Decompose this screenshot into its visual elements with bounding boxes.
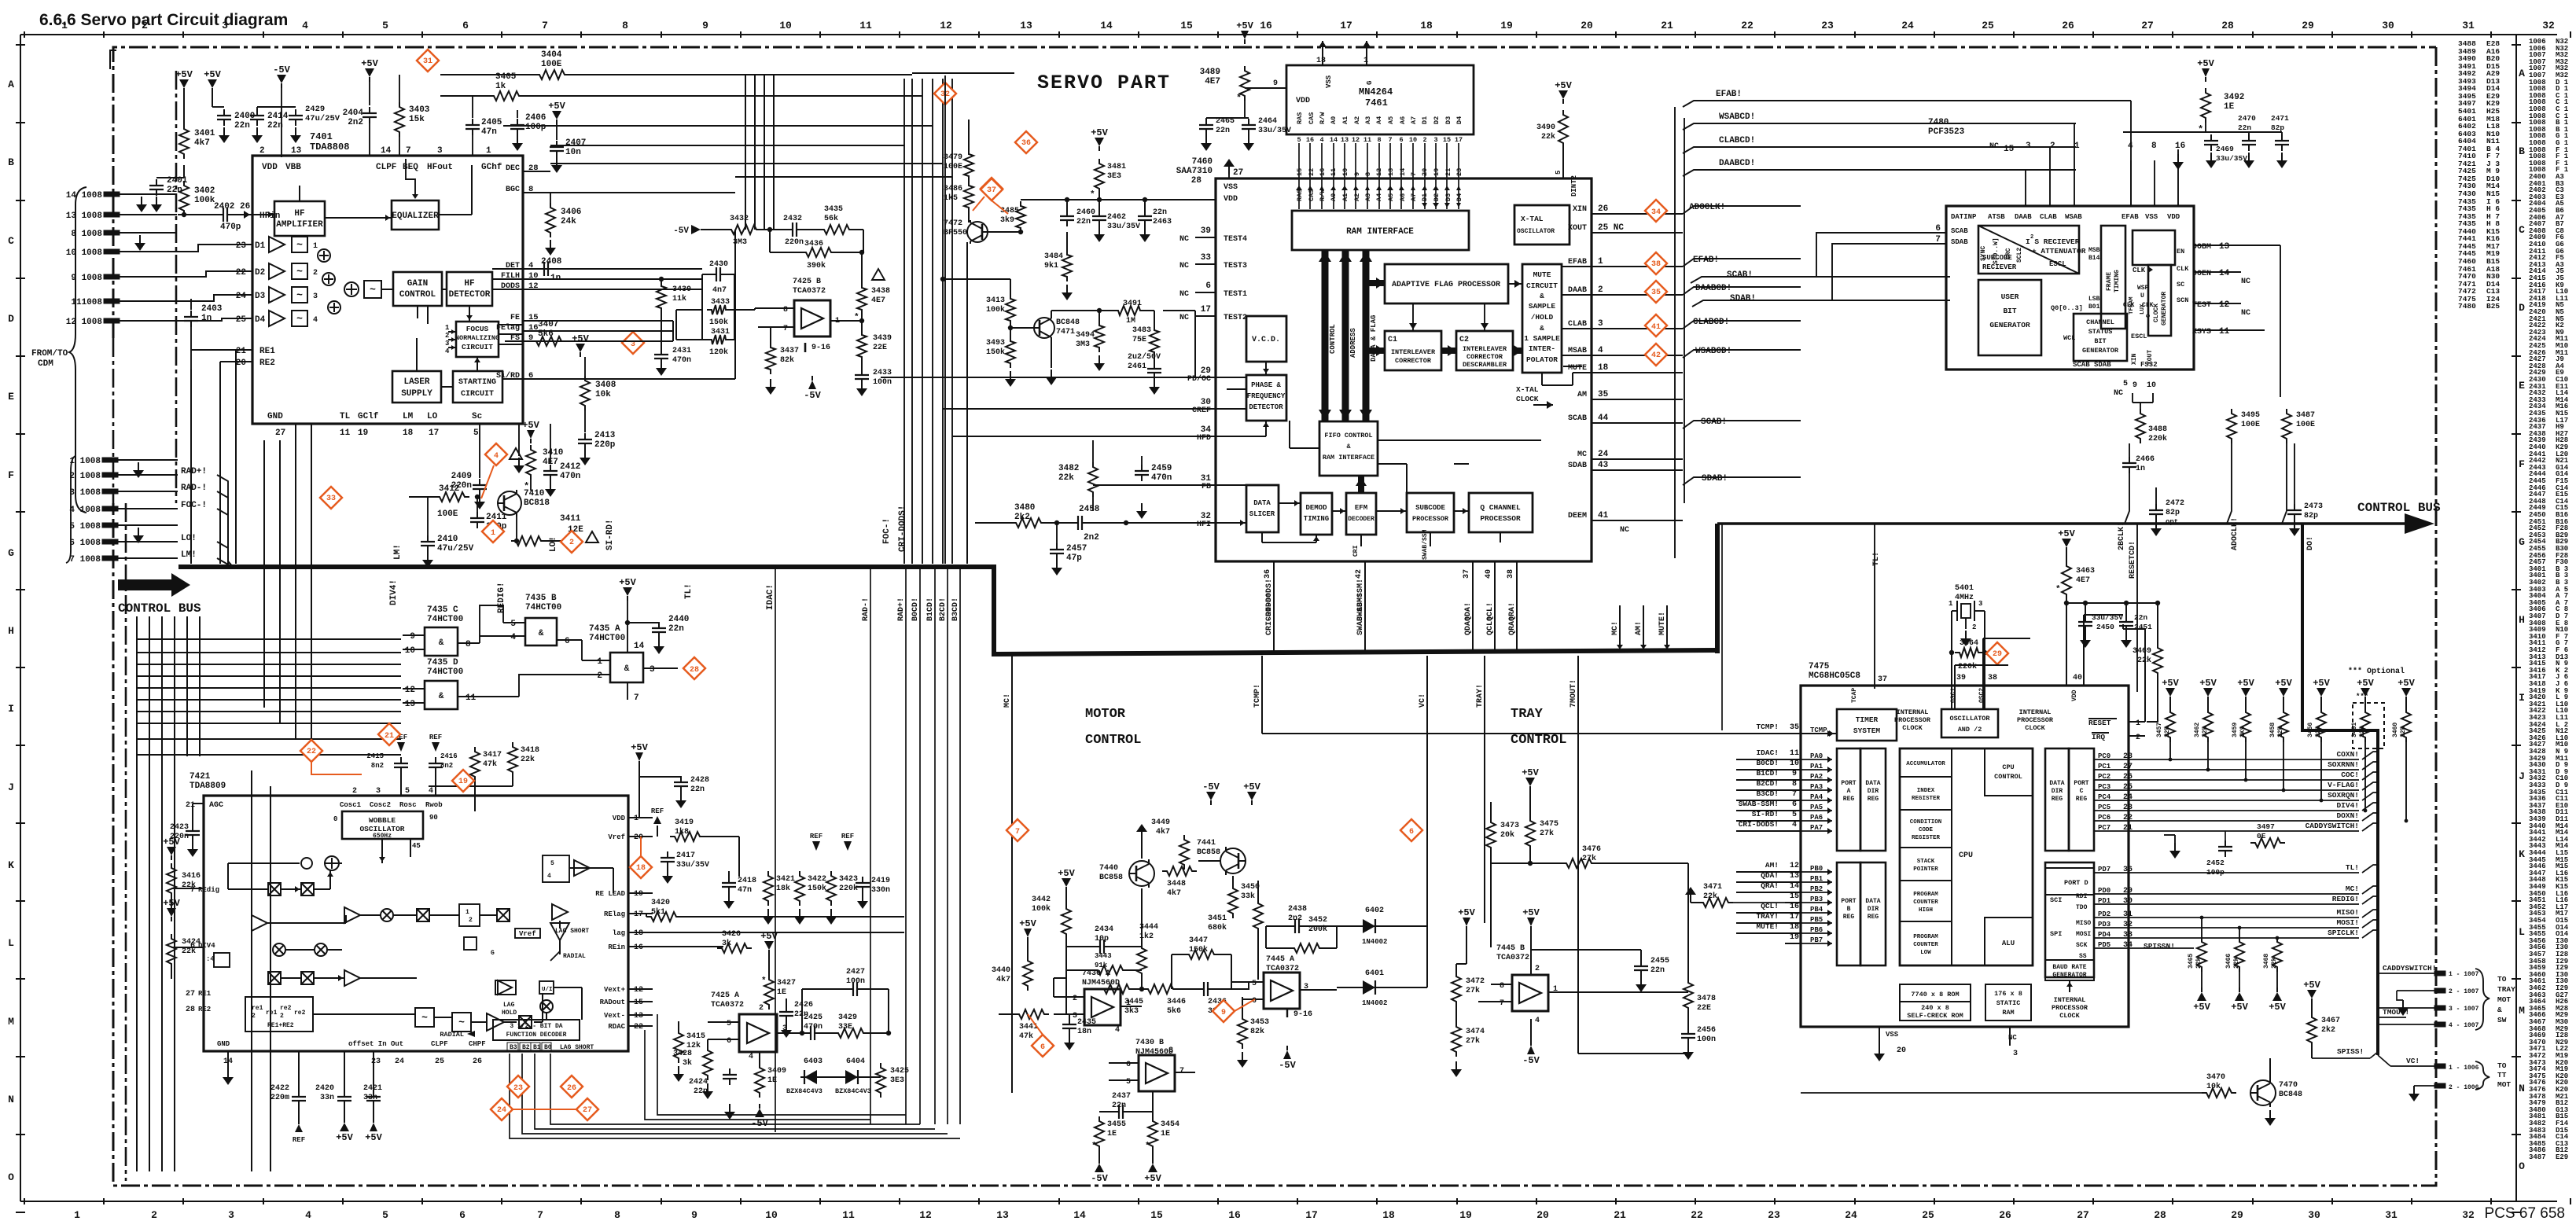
svg-text:CPU: CPU	[2002, 763, 2014, 771]
svg-text:B1CD!: B1CD!	[1756, 769, 1779, 778]
svg-text:B2CD!: B2CD!	[1756, 779, 1779, 788]
svg-text:D1: D1	[255, 241, 266, 251]
svg-text:AM!: AM!	[1765, 861, 1779, 870]
svg-text:7471: 7471	[1056, 328, 1075, 337]
svg-text:3421: 3421	[776, 875, 795, 884]
svg-text:+5V: +5V	[1458, 907, 1475, 918]
diamond 6 motor	[1032, 1035, 1054, 1057]
resistor group 3465 3466 3468 22k	[2197, 937, 2206, 972]
long verticals from SAA bottom to CPU left	[1274, 651, 1722, 831]
svg-text:RAD-!: RAD-!	[181, 484, 207, 493]
svg-text:5k6: 5k6	[1167, 1006, 1181, 1016]
svg-text:SS: SS	[2079, 953, 2087, 960]
svg-text:CADDYSWITCH!: CADDYSWITCH!	[2306, 822, 2359, 830]
svg-text:SLICER: SLICER	[1249, 510, 1275, 518]
collector rail to SAA VDD pin	[1021, 199, 1216, 200]
TDA8809 internal symbols	[325, 856, 339, 870]
svg-text:MUTE!: MUTE!	[1756, 922, 1779, 931]
svg-text:A4: A4	[1375, 193, 1383, 201]
svg-text:3M3: 3M3	[1076, 340, 1090, 349]
svg-text:3 - 1007: 3 - 1007	[2449, 1006, 2479, 1013]
svg-text:22: 22	[307, 748, 316, 756]
svg-text:M: M	[2519, 1005, 2525, 1017]
resistor 3444 1k2	[1137, 943, 1146, 978]
svg-text:2: 2	[597, 671, 602, 681]
svg-text:4: 4	[749, 1053, 753, 1061]
svg-text:C: C	[8, 235, 14, 247]
svg-text:100n: 100n	[873, 378, 892, 387]
svg-text:6402: 6402	[1365, 907, 1384, 915]
svg-text:Sc: Sc	[472, 412, 482, 421]
svg-text:22k: 22k	[1541, 132, 1555, 142]
svg-text:BF550: BF550	[944, 229, 967, 237]
svg-text:+5V: +5V	[2275, 678, 2292, 689]
svg-text:2417: 2417	[676, 851, 695, 860]
svg-text:REDIG!: REDIG!	[497, 582, 506, 613]
capacitor 2466 1n	[2129, 457, 2130, 463]
svg-text:3487: 3487	[2296, 411, 2315, 420]
svg-text:MOT: MOT	[2497, 1080, 2511, 1089]
resistor 3406 24k	[546, 203, 555, 237]
svg-text:CLOCK: CLOCK	[2059, 1012, 2080, 1020]
svg-text:8: 8	[1792, 780, 1797, 789]
svg-text:DATA: DATA	[2049, 780, 2064, 787]
diode 6402 1N4002	[1360, 925, 1379, 927]
svg-text:24: 24	[395, 1057, 404, 1066]
TDA8808 sub-block LASER SUPPLY	[392, 371, 441, 403]
IC 7401 TDA8808 outline	[252, 156, 523, 424]
svg-text:1 1008: 1 1008	[69, 457, 101, 466]
svg-text:TEST: TEST	[2192, 301, 2211, 310]
svg-text:42: 42	[1651, 351, 1661, 360]
svg-text:10: 10	[1409, 136, 1417, 144]
svg-text:B2CD!: B2CD!	[939, 598, 948, 621]
ALU box	[1985, 918, 2033, 965]
svg-text:TO: TO	[2497, 1061, 2507, 1070]
svg-text:A7: A7	[1410, 193, 1418, 201]
svg-text:CHANNEL: CHANNEL	[2086, 318, 2114, 326]
svg-text:2470: 2470	[2238, 114, 2256, 123]
svg-text:3: 3	[1598, 319, 1603, 329]
svg-text:SUBCODE: SUBCODE	[1415, 504, 1445, 512]
capacitor 2457 47p	[1056, 543, 1058, 550]
svg-text:11: 11	[2219, 327, 2230, 337]
svg-text:41: 41	[1651, 323, 1661, 332]
svg-text:SPISSN!: SPISSN!	[2144, 942, 2175, 951]
svg-text:SCAB!: SCAB!	[1701, 417, 1727, 427]
TDA8808 summing and filter	[344, 282, 359, 296]
svg-text:+5V: +5V	[2197, 58, 2214, 69]
svg-text:21: 21	[186, 801, 195, 810]
svg-text:2464: 2464	[1258, 117, 1277, 126]
svg-text:3463: 3463	[2076, 567, 2095, 576]
svg-text:7472: 7472	[944, 219, 962, 228]
svg-text:TL!: TL!	[1872, 552, 1881, 566]
svg-text:31: 31	[2462, 20, 2475, 31]
svg-text:3E3: 3E3	[1107, 172, 1121, 181]
svg-text:3442: 3442	[1032, 895, 1051, 904]
svg-text:+5V: +5V	[1019, 918, 1036, 929]
svg-text:B0CD!: B0CD!	[1756, 759, 1779, 767]
CPU internal registers	[1900, 748, 1952, 777]
svg-text:&: &	[539, 629, 544, 638]
svg-text:2459: 2459	[1151, 464, 1172, 473]
bracket for 1008 lower pins	[66, 456, 75, 563]
svg-text:TEST2: TEST2	[1224, 314, 1247, 322]
svg-text:12: 12	[2219, 300, 2229, 310]
svg-text:3408: 3408	[595, 381, 616, 390]
resistor 3412 100E	[435, 492, 469, 502]
svg-text:1: 1	[466, 909, 469, 916]
svg-text:POINTER: POINTER	[1913, 866, 1938, 873]
svg-text:PROCESSOR: PROCESSOR	[2052, 1004, 2088, 1012]
svg-text:4: 4	[1319, 136, 1323, 144]
svg-text:Vref: Vref	[519, 930, 536, 938]
svg-text:3420: 3420	[651, 899, 670, 907]
svg-text:9: 9	[691, 1209, 697, 1221]
svg-text:-5V: -5V	[1091, 1173, 1108, 1184]
svg-text:150k: 150k	[986, 348, 1005, 357]
svg-text:3: 3	[650, 665, 655, 675]
svg-text:GND: GND	[217, 1040, 230, 1048]
svg-text:PCS 67 658: PCS 67 658	[2485, 1205, 2565, 1222]
svg-text:RADout: RADout	[600, 998, 625, 1006]
svg-text:RE LEAD: RE LEAD	[595, 890, 625, 898]
svg-text:3493: 3493	[986, 339, 1005, 348]
svg-text:240 x 8: 240 x 8	[1921, 1004, 1949, 1012]
svg-text:29: 29	[2231, 1209, 2243, 1221]
svg-text:1: 1	[445, 324, 450, 332]
capacitor 2400 22n	[212, 93, 213, 107]
svg-text:G: G	[491, 950, 495, 957]
orange diamonds bottom	[507, 1076, 529, 1098]
svg-text:14: 14	[1073, 1209, 1086, 1221]
svg-text:LAG SHORT: LAG SHORT	[555, 928, 589, 935]
svg-text:~: ~	[296, 239, 303, 251]
svg-text:7: 7	[542, 20, 548, 31]
svg-text:7MOUT!: 7MOUT!	[1570, 679, 1578, 708]
svg-text:WCL: WCL	[2063, 334, 2075, 342]
svg-text:REG: REG	[2052, 796, 2063, 803]
svg-text:12: 12	[634, 986, 643, 995]
TDA8809 internal wiring	[228, 862, 300, 864]
svg-text:3449: 3449	[1151, 818, 1170, 827]
svg-text:4E7: 4E7	[543, 458, 558, 467]
svg-text:C: C	[2519, 224, 2525, 236]
svg-text:37: 37	[1463, 569, 1471, 579]
svg-text:22E: 22E	[1697, 1004, 1711, 1013]
svg-text:2k2: 2k2	[2321, 1025, 2335, 1035]
resistor 3408 10k	[580, 376, 590, 410]
transistor 7441 BC858	[1220, 848, 1246, 873]
svg-text:TDA8808: TDA8808	[310, 142, 349, 153]
svg-text:27: 27	[186, 990, 195, 998]
svg-text:GENERATOR: GENERATOR	[2082, 347, 2119, 355]
svg-text:H: H	[2519, 614, 2525, 626]
svg-text:7461: 7461	[1365, 97, 1388, 108]
svg-text:28: 28	[2154, 1209, 2166, 1221]
svg-text:9: 9	[702, 20, 708, 31]
svg-text:MISO: MISO	[2076, 920, 2091, 927]
svg-text:NC: NC	[2241, 309, 2250, 318]
svg-text:10: 10	[2147, 381, 2156, 390]
svg-text:LM!: LM!	[181, 550, 197, 560]
svg-text:150k: 150k	[808, 884, 826, 893]
svg-text:5: 5	[2123, 380, 2128, 388]
svg-text:3479: 3479	[944, 153, 962, 162]
svg-text:CRI-DODS!: CRI-DODS!	[1265, 593, 1274, 635]
svg-text:26: 26	[1999, 1209, 2011, 1221]
wires connector to TDA8808 D inputs	[177, 245, 252, 252]
svg-text:4: 4	[2128, 142, 2133, 151]
svg-text:7460: 7460	[1192, 157, 1213, 167]
svg-text:3478: 3478	[1697, 995, 1716, 1003]
capacitor 2424 22n	[729, 1068, 730, 1075]
svg-text:2: 2	[259, 146, 265, 156]
svg-text:TEST1: TEST1	[1224, 290, 1247, 299]
svg-text:LAG SHORT: LAG SHORT	[560, 1044, 594, 1051]
svg-text:+5V: +5V	[1236, 20, 1253, 31]
svg-text:25: 25	[236, 315, 247, 325]
svg-text:10: 10	[779, 20, 792, 31]
svg-text:22n: 22n	[668, 624, 684, 634]
svg-text:24: 24	[236, 292, 247, 301]
svg-text:CRC: CRC	[2005, 248, 2012, 259]
svg-text:220m: 220m	[270, 1094, 289, 1102]
svg-text:REF: REF	[293, 1136, 305, 1144]
svg-text:3490: 3490	[1536, 123, 1555, 132]
svg-text:+ ATTENUATOR: + ATTENUATOR	[2032, 247, 2086, 256]
svg-text:11: 11	[1330, 168, 1338, 176]
svg-text:-5V: -5V	[751, 1118, 768, 1129]
svg-text:17: 17	[1201, 305, 1211, 314]
svg-text:1: 1	[2074, 142, 2080, 151]
svg-text:-5V: -5V	[273, 64, 290, 75]
svg-text:***: ***	[2356, 693, 2368, 701]
SAA7310 sub-block V.C.D.	[1246, 316, 1286, 362]
svg-text:2412: 2412	[560, 462, 580, 472]
svg-text:TIMER: TIMER	[1856, 715, 1879, 724]
svg-text:+5V: +5V	[572, 333, 589, 344]
svg-text:18: 18	[634, 929, 643, 938]
svg-text:-5V: -5V	[1279, 1060, 1296, 1071]
svg-text:33E: 33E	[838, 1023, 852, 1032]
svg-text:3440: 3440	[992, 966, 1010, 975]
svg-text:CLAB: CLAB	[1568, 320, 1587, 329]
svg-text:R/W: R/W	[1319, 189, 1327, 201]
svg-text:TT: TT	[2497, 1071, 2507, 1079]
svg-text:3471: 3471	[1703, 883, 1722, 892]
resistor 3479 100E	[964, 149, 973, 181]
capacitor 2417 33u/35V	[667, 851, 668, 858]
svg-text:33u/35V: 33u/35V	[676, 860, 709, 870]
SAA7310 sub-block X-TAL OSCILLATOR	[1514, 205, 1570, 245]
svg-text:Q0[0..3]: Q0[0..3]	[2051, 304, 2083, 312]
svg-text:3446: 3446	[1167, 998, 1186, 1006]
svg-text:5: 5	[510, 620, 516, 629]
svg-text:3454: 3454	[1161, 1120, 1179, 1129]
svg-text:+5V: +5V	[1144, 1173, 1161, 1184]
svg-text:2 1008: 2 1008	[69, 472, 101, 481]
svg-text:RADIAL: RADIAL	[563, 953, 586, 960]
svg-text:42: 42	[1355, 569, 1363, 579]
svg-text:13: 13	[996, 1209, 1009, 1221]
svg-text:7440: 7440	[1099, 864, 1118, 873]
svg-text:SI-RD!: SI-RD!	[605, 519, 615, 550]
svg-text:21: 21	[1661, 20, 1673, 31]
svg-text:5: 5	[405, 787, 410, 796]
svg-text:Rwob: Rwob	[425, 801, 443, 809]
svg-text:2410: 2410	[437, 535, 458, 544]
svg-text:PORT D: PORT D	[2064, 879, 2088, 887]
svg-text:2: 2	[2050, 142, 2055, 151]
svg-text:O: O	[2519, 1160, 2525, 1172]
svg-text:22n: 22n	[1076, 218, 1091, 226]
svg-text:GENERATOR: GENERATOR	[2161, 292, 2168, 325]
svg-text:A0: A0	[1330, 116, 1338, 124]
svg-text:4 - 1007: 4 - 1007	[2449, 1022, 2479, 1029]
svg-text:74HCT00: 74HCT00	[589, 634, 625, 643]
svg-text:2 - 1007: 2 - 1007	[2449, 988, 2479, 995]
resistor 3402 100k	[179, 181, 189, 215]
svg-text:LASER: LASER	[403, 377, 429, 387]
svg-text:VSS: VSS	[1325, 75, 1333, 88]
svg-text:3451: 3451	[1208, 914, 1227, 923]
svg-text:23: 23	[371, 1057, 381, 1066]
resistor 3418 22k	[508, 742, 517, 777]
svg-text:&: &	[624, 664, 630, 674]
svg-text:2: 2	[2030, 234, 2033, 241]
svg-text:CONDITION: CONDITION	[1910, 819, 1942, 826]
svg-text:D4: D4	[1455, 193, 1463, 201]
svg-text:27k: 27k	[1540, 829, 1554, 838]
svg-text:lag: lag	[613, 929, 625, 937]
svg-text:7480: 7480	[1928, 118, 1949, 127]
svg-text:19: 19	[1790, 933, 1799, 942]
capacitor 2471 82p	[2281, 134, 2283, 141]
svg-text:CORRECTOR: CORRECTOR	[1395, 357, 1432, 365]
svg-text:6: 6	[1409, 828, 1414, 837]
diamond 18	[630, 856, 652, 878]
wire FB	[1093, 484, 1216, 486]
svg-text:6403: 6403	[804, 1057, 822, 1066]
svg-text:3456: 3456	[2307, 723, 2314, 737]
svg-text:GChf: GChf	[481, 163, 502, 172]
resistor 3409 1E	[755, 1063, 764, 1098]
svg-text:FRAME: FRAME	[2106, 272, 2113, 291]
svg-text:D3: D3	[1444, 116, 1452, 124]
svg-text:5: 5	[473, 428, 479, 438]
svg-text:6 1008: 6 1008	[69, 539, 101, 548]
svg-text:3409: 3409	[767, 1067, 786, 1076]
svg-text:+5V: +5V	[2269, 1002, 2286, 1013]
svg-text:4k7: 4k7	[996, 975, 1010, 984]
svg-text:22n: 22n	[1216, 127, 1230, 135]
svg-text:18k: 18k	[776, 884, 790, 893]
svg-text:~: ~	[458, 1017, 465, 1028]
svg-text:3403: 3403	[409, 105, 430, 115]
resistor 3489 4E7	[1240, 66, 1249, 101]
svg-text:15: 15	[1180, 20, 1193, 31]
capacitor 2415 8n2	[400, 757, 402, 763]
CPU block PORT D / SCI / SPI	[2045, 862, 2094, 977]
svg-text:BEQ: BEQ	[403, 163, 418, 172]
svg-text:RADIAL: RADIAL	[440, 1031, 464, 1039]
svg-text:O: O	[8, 1171, 14, 1183]
svg-text:8: 8	[1364, 172, 1372, 176]
svg-text:25: 25	[1982, 20, 1994, 31]
svg-text:1: 1	[486, 146, 491, 156]
diode 6401 1N4002	[1360, 987, 1379, 988]
svg-text:3483: 3483	[1132, 326, 1151, 335]
svg-text:2: 2	[252, 1013, 256, 1020]
PCF3523 sub-block FRAME TIMING	[2101, 226, 2125, 329]
svg-text:7: 7	[1015, 828, 1020, 837]
orange diamonds near TDA8809 top	[300, 740, 322, 762]
svg-text:3452: 3452	[1308, 916, 1327, 925]
SAA7310 sub-block EFM DECODER	[1346, 493, 1376, 535]
TDA8808 sub-block STARTING CIRCUIT	[453, 371, 502, 403]
svg-text:23: 23	[1768, 1209, 1780, 1221]
svg-text:16: 16	[1790, 903, 1799, 911]
svg-text:3 1/2 - BIT DA: 3 1/2 - BIT DA	[510, 1023, 562, 1030]
svg-text:-5V: -5V	[1202, 781, 1220, 793]
resistor 3493 150k	[1006, 337, 1015, 368]
resistor 3448 4k7	[1162, 866, 1197, 876]
svg-text:REF: REF	[651, 807, 664, 815]
svg-text:A2: A2	[1353, 193, 1361, 201]
svg-text:2469: 2469	[2216, 145, 2234, 153]
svg-text:36: 36	[1021, 139, 1031, 148]
svg-text:20: 20	[1581, 20, 1593, 31]
svg-text:NORMALIZING: NORMALIZING	[455, 334, 499, 342]
svg-text:33k: 33k	[1241, 892, 1255, 901]
svg-text:56k: 56k	[824, 214, 838, 223]
svg-text:OSC2: OSC2	[1978, 688, 1985, 703]
orange diamonds left block	[417, 50, 439, 72]
svg-text:VC!: VC!	[2406, 1057, 2420, 1065]
capacitor 2464 33u/35V	[1248, 119, 1249, 125]
svg-text:+5V: +5V	[2058, 528, 2075, 539]
svg-text:7445 A: 7445 A	[1266, 955, 1294, 964]
resistor 3432 3M3	[727, 225, 761, 234]
svg-text:3415: 3415	[686, 1032, 705, 1041]
svg-text:CRI-DODS!: CRI-DODS!	[898, 506, 907, 552]
svg-text:ADOCLK!: ADOCLK!	[1689, 203, 1725, 212]
svg-text:2413: 2413	[594, 431, 616, 440]
svg-text:19: 19	[358, 428, 368, 438]
svg-text:TEST3: TEST3	[1224, 262, 1247, 270]
svg-text:RElag: RElag	[604, 910, 625, 918]
resistor 3442 100k	[1062, 904, 1071, 939]
CPU bottom wire to transistor	[1879, 1092, 2155, 1094]
svg-text:Cosc2: Cosc2	[370, 801, 391, 809]
svg-text:8: 8	[1168, 1046, 1173, 1055]
svg-text:WOBBLE: WOBBLE	[369, 816, 396, 825]
svg-text:GClf: GClf	[358, 412, 379, 421]
svg-text:2BCLK!: 2BCLK!	[2118, 522, 2126, 550]
svg-text:24: 24	[1598, 450, 1609, 459]
svg-text:TFRAM: TFRAM	[2129, 296, 2135, 314]
svg-text:VDD: VDD	[262, 163, 278, 172]
svg-text:PORT: PORT	[1841, 898, 1856, 905]
svg-text:MC!: MC!	[1003, 693, 1012, 708]
svg-text:A3: A3	[1364, 193, 1372, 201]
svg-text:2455: 2455	[1650, 957, 1669, 965]
svg-text:74HCT00: 74HCT00	[427, 615, 463, 624]
PCF3523 sub-block USER BIT GENERATOR	[1978, 280, 2041, 355]
svg-text:220p: 220p	[594, 440, 616, 450]
